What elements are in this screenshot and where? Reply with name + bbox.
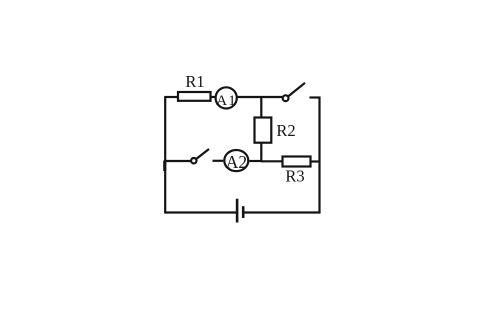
wire A1 to switch S2 bbox=[238, 96, 283, 98]
switch S2 pivot bbox=[283, 95, 289, 101]
node junction top (A1/R2/S2) bbox=[260, 97, 262, 117]
resistor R1 bbox=[178, 92, 211, 101]
wire R2 bottom to node bbox=[260, 144, 262, 163]
resistor R2 bbox=[255, 118, 272, 143]
svg-text:R1: R1 bbox=[185, 72, 204, 91]
switch S1 pivot bbox=[191, 158, 196, 163]
wire R1 to A1 bbox=[211, 96, 216, 98]
svg-text:R3: R3 bbox=[285, 166, 304, 185]
switch S2 lever bbox=[288, 83, 305, 97]
wire A2 to node (R2 bottom) bbox=[249, 160, 262, 162]
wire battery to bottom right bbox=[244, 211, 320, 213]
ammeter A2 bbox=[224, 150, 248, 171]
battery short plate bbox=[242, 206, 245, 218]
wire top-left segment bbox=[164, 96, 178, 98]
wire S2 contact to right rail bbox=[310, 96, 321, 98]
switch S1 lever bbox=[196, 149, 209, 159]
wire left vertical bbox=[164, 97, 166, 213]
wire S1 contact to A2 bbox=[213, 160, 224, 162]
wire left rail to switch S1 bbox=[164, 160, 191, 162]
svg-text:A1: A1 bbox=[216, 93, 237, 109]
svg-text:A2: A2 bbox=[226, 152, 247, 172]
svg-text:R2: R2 bbox=[276, 121, 295, 140]
wire node to R3 bbox=[261, 160, 282, 162]
wire R3 to right rail bbox=[311, 160, 320, 162]
resistor R3 bbox=[283, 157, 311, 167]
wire bottom left to battery bbox=[164, 211, 236, 213]
battery long plate bbox=[236, 199, 239, 223]
ammeter A1 bbox=[216, 87, 237, 108]
node junction left rail / S1 wire bbox=[163, 161, 166, 172]
wire right vertical rail bbox=[318, 97, 320, 213]
